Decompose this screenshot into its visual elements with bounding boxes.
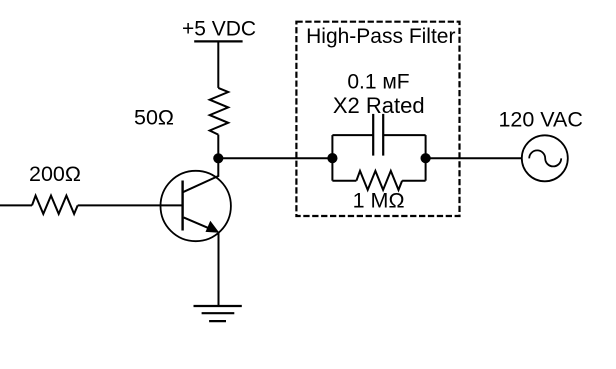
- wire filter output to AC source: [426, 157, 522, 159]
- transistor Q1 emitter arrowhead: [206, 221, 220, 233]
- node C filter output junction dot: [421, 153, 431, 163]
- wire resistor R3 to right branch: [402, 180, 426, 182]
- resistor R3 1 MΩ (horizontal zigzag): [356, 171, 402, 190]
- wire bottom branch to resistor R3: [332, 180, 356, 182]
- wire top branch to capacitor C1: [332, 134, 373, 136]
- resistor R1 50Ω (vertical zigzag): [210, 88, 229, 135]
- capacitor C1 left plate: [372, 114, 374, 156]
- svg-text:0.1 мF: 0.1 мF: [347, 70, 409, 93]
- wire capacitor C1 to right branch: [383, 134, 425, 136]
- wire filter input vertical branch: [331, 135, 333, 181]
- transistor Q1 collector diagonal: [183, 176, 219, 192]
- transistor Q1 base bar: [181, 181, 183, 231]
- capacitor C1 right plate: [382, 114, 384, 156]
- node B filter input junction dot: [327, 153, 337, 163]
- svg-text:High-Pass Filter: High-Pass Filter: [306, 25, 455, 48]
- wire filter output vertical branch: [425, 135, 427, 181]
- wire collector vertical lead: [217, 158, 219, 177]
- wire from node A to filter input: [218, 157, 332, 159]
- wire from resistor R1 to collector node: [217, 135, 219, 159]
- wire base lead from left edge: [0, 204, 32, 206]
- svg-text:X2 Rated: X2 Rated: [333, 93, 425, 118]
- AC source V1 sine wave: [529, 150, 561, 166]
- svg-text:1 MΩ: 1 MΩ: [353, 189, 405, 213]
- wire emitter to ground: [218, 232, 220, 307]
- wire from resistor R2 to base bar: [78, 204, 183, 206]
- svg-text:200Ω: 200Ω: [29, 162, 81, 186]
- transistor Q1 emitter diagonal: [184, 217, 214, 230]
- high-pass filter dashed enclosure: [296, 22, 459, 216]
- node A junction dot (collector node): [213, 153, 223, 163]
- power rail bar +5V: [194, 40, 242, 42]
- svg-text:50Ω: 50Ω: [134, 106, 174, 130]
- svg-text:120 VAC: 120 VAC: [498, 108, 582, 132]
- resistor R2 200Ω (horizontal zigzag): [32, 196, 78, 214]
- transistor Q1 circle: [161, 171, 231, 241]
- svg-text:+5 VDC: +5 VDC: [182, 17, 256, 40]
- AC source V1 circle: [522, 135, 568, 181]
- ground symbol: [194, 306, 242, 321]
- wire from +5V bar to resistor R1: [217, 41, 219, 88]
